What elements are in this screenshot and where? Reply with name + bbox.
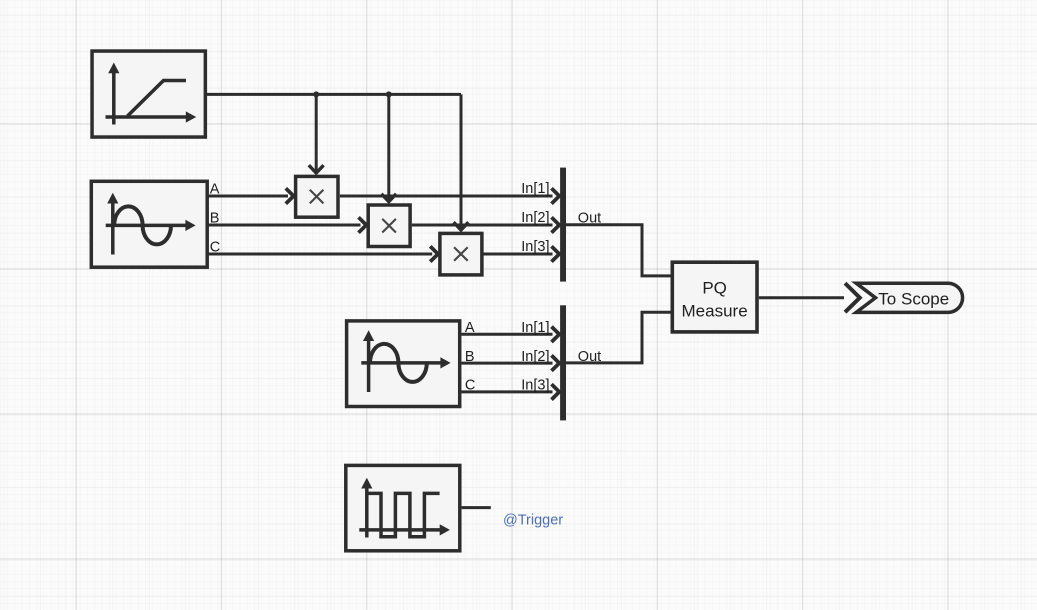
wire drop to multiplier 2 bbox=[381, 94, 396, 201]
svg-text:@Trigger: @Trigger bbox=[503, 513, 563, 529]
PQ Measure block bbox=[672, 262, 757, 332]
wire mux2 out to PQ input 2 bbox=[566, 312, 671, 363]
wire drop to multiplier 3 bbox=[454, 94, 469, 230]
wire B sine2 to mux2 In[2] bbox=[462, 355, 560, 370]
wire PQ output to scope tag bbox=[759, 283, 860, 312]
wire A sine1 to multiplier1 bbox=[208, 188, 294, 203]
wire pulse output stub bbox=[462, 506, 491, 509]
signal tag To Scope bbox=[856, 283, 962, 312]
wire mux1 out to PQ input 1 bbox=[566, 225, 671, 276]
svg-text:In[1]: In[1] bbox=[521, 181, 549, 197]
wire A sine2 to mux2 In[1] bbox=[462, 327, 560, 342]
wire C sine2 to mux2 In[3] bbox=[462, 384, 560, 399]
mux2 bar bbox=[560, 305, 566, 420]
wire B sine1 to multiplier2 bbox=[208, 217, 366, 232]
sine wave source block 1 bbox=[91, 181, 207, 267]
sine wave source block 2 bbox=[347, 321, 460, 407]
svg-text:In[3]: In[3] bbox=[521, 378, 549, 394]
svg-text:In[2]: In[2] bbox=[521, 349, 549, 365]
junction dot 1 bbox=[313, 91, 319, 97]
ramp source block bbox=[92, 51, 205, 137]
svg-text:Measure: Measure bbox=[682, 302, 748, 321]
svg-text:To Scope: To Scope bbox=[878, 289, 949, 308]
svg-text:PQ: PQ bbox=[702, 279, 727, 298]
wire drop to multiplier 1 bbox=[309, 94, 324, 173]
multiplier block 3 bbox=[440, 233, 482, 275]
svg-text:In[1]: In[1] bbox=[521, 320, 549, 336]
wire C sine1 to multiplier3 bbox=[208, 246, 438, 261]
wire multiplier1 to mux1 In[1] bbox=[340, 188, 560, 203]
wire multiplier2 to mux1 In[2] bbox=[412, 217, 559, 232]
wire ramp output horizontal bbox=[207, 93, 462, 96]
junction dot 2 bbox=[386, 91, 392, 97]
wire multiplier3 to mux1 In[3] bbox=[482, 246, 559, 261]
svg-text:In[2]: In[2] bbox=[521, 210, 549, 226]
svg-text:In[3]: In[3] bbox=[521, 239, 549, 255]
mux1 bar bbox=[560, 168, 566, 282]
pulse generator block bbox=[346, 465, 460, 550]
multiplier block 2 bbox=[368, 205, 410, 247]
multiplier block 1 bbox=[296, 176, 338, 217]
